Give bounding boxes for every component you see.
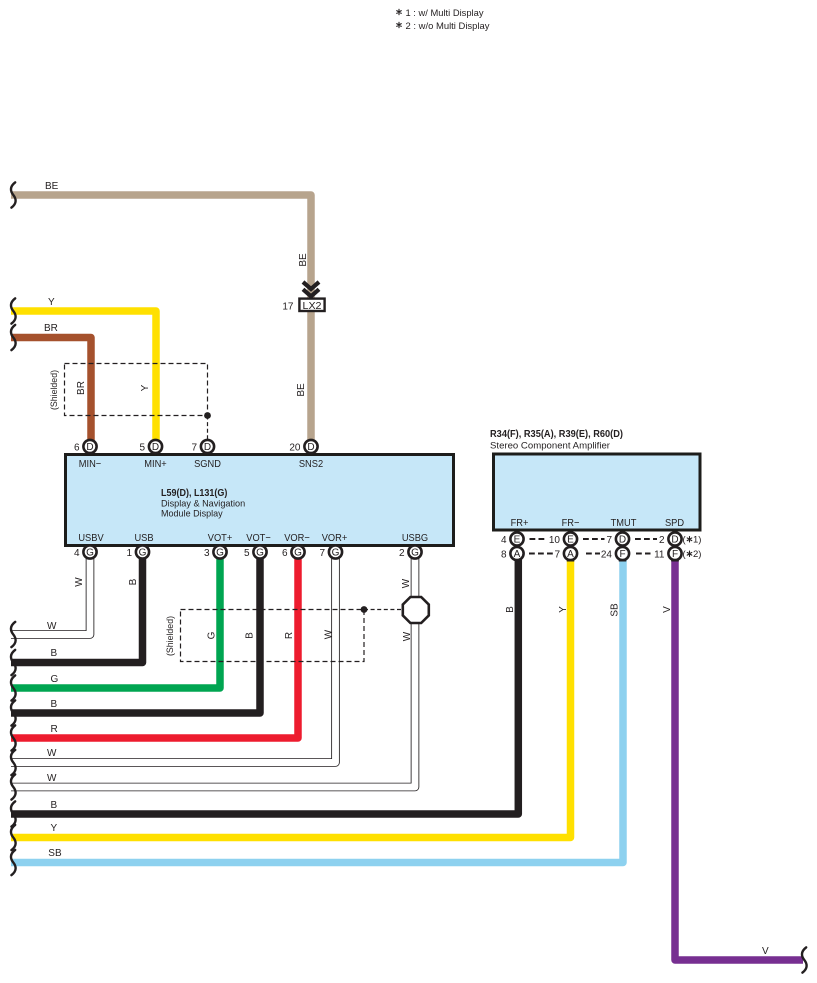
svg-text:R: R: [284, 632, 295, 639]
pin 6 G VOR-: [282, 532, 310, 559]
svg-text:G: G: [294, 548, 302, 559]
shield octagon: [403, 597, 429, 623]
svg-text:11: 11: [654, 550, 665, 561]
svg-text:R34(F), R35(A), R39(E), R60(D): R34(F), R35(A), R39(E), R60(D): [490, 429, 623, 440]
svg-text:2): 2): [693, 549, 701, 560]
junction dot shield lower: [361, 606, 368, 613]
note legend line 2: [397, 22, 402, 27]
svg-text:V: V: [662, 606, 673, 613]
svg-text:D: D: [671, 535, 678, 546]
svg-text:B: B: [128, 578, 139, 585]
svg-text:7: 7: [319, 548, 325, 559]
svg-text:1: 1: [126, 548, 132, 559]
svg-text:BR: BR: [76, 381, 87, 395]
svg-text:D: D: [307, 442, 314, 453]
break BR left: [11, 325, 16, 350]
svg-text:W: W: [401, 578, 412, 588]
svg-text:B: B: [245, 632, 256, 639]
svg-text:7: 7: [191, 443, 197, 454]
svg-text:BE: BE: [298, 253, 309, 267]
svg-text:W: W: [47, 621, 57, 632]
wire Y from amp FR-: [11, 559, 571, 851]
svg-text:10: 10: [549, 535, 561, 546]
connector box LX2: [299, 299, 324, 311]
wire BR (brown) from break to pin 6 MIN-: [11, 338, 91, 442]
pin 5 G VOT-: [244, 532, 271, 559]
svg-text:Y: Y: [51, 823, 58, 834]
pin 7 G VOR+: [319, 532, 347, 559]
amp pin row 1: 4 E -- 10 E --- 7 D --- 2 D (*1): [501, 532, 702, 546]
svg-text:Stereo Component Amplifier: Stereo Component Amplifier: [490, 441, 610, 452]
svg-text:SB: SB: [610, 603, 621, 617]
svg-text:W: W: [402, 631, 413, 641]
wire B from pin 1 USB: [11, 558, 143, 675]
display module box L59/L131: [66, 455, 454, 546]
wire R from pin 6 VOR-: [11, 558, 298, 751]
wire BE (beige) from break to pin 20 SNS2: [11, 195, 311, 441]
pin 20 D SNS2: [289, 440, 323, 470]
svg-text:FR−: FR−: [562, 517, 580, 529]
svg-text:B: B: [51, 699, 58, 710]
note legend line 1: [397, 9, 402, 14]
svg-text:D: D: [619, 535, 626, 546]
svg-text:7: 7: [606, 535, 612, 546]
svg-text:6: 6: [282, 548, 288, 559]
svg-text:F: F: [672, 549, 678, 560]
pin 4 G USBV: [74, 532, 104, 559]
svg-text:(: (: [683, 549, 687, 560]
svg-text:17: 17: [282, 302, 294, 313]
svg-text:2: 2: [659, 535, 665, 546]
wire B from amp FR+: [11, 559, 518, 827]
svg-text:2 : w/o Multi Display: 2 : w/o Multi Display: [406, 21, 490, 32]
svg-text:D: D: [86, 442, 93, 453]
svg-text:D: D: [152, 442, 159, 453]
svg-text:W: W: [74, 577, 85, 587]
svg-text:VOT−: VOT−: [246, 532, 271, 544]
svg-text:L59(D), L131(G): L59(D), L131(G): [161, 488, 227, 499]
amp pin row 2: 8 A --- 7 A -- 24 F -- 11 F (*2): [501, 547, 702, 561]
svg-text:V: V: [762, 946, 769, 957]
break BE left: [11, 182, 16, 207]
svg-text:BR: BR: [44, 323, 58, 334]
svg-text:4: 4: [74, 548, 80, 559]
svg-text:LX2: LX2: [303, 301, 322, 312]
svg-text:G: G: [51, 674, 59, 685]
svg-text:3: 3: [204, 548, 210, 559]
shielded cable box lower: [181, 610, 365, 662]
svg-text:A: A: [514, 549, 521, 560]
wire SB from amp TMUT: [11, 559, 623, 876]
pin 3 G VOT+: [204, 532, 232, 559]
svg-text:7: 7: [554, 550, 560, 561]
svg-text:Y: Y: [558, 606, 569, 613]
svg-text:G: G: [411, 548, 419, 559]
shield drain dashed line to octagon: [364, 609, 403, 611]
wire W from pin 7 VOR+: [11, 558, 336, 775]
amplifier box: [494, 454, 701, 530]
svg-text:1 : w/ Multi Display: 1 : w/ Multi Display: [406, 8, 484, 19]
svg-text:B: B: [51, 648, 58, 659]
pin 6 D MIN-: [74, 440, 101, 470]
wire G from pin 3 VOT+: [11, 558, 220, 701]
svg-text:5: 5: [244, 548, 250, 559]
svg-text:R: R: [51, 724, 58, 735]
svg-text:(Shielded): (Shielded): [49, 370, 59, 410]
svg-text:SPD: SPD: [665, 517, 684, 529]
svg-text:2: 2: [399, 548, 405, 559]
pin 5 D MIN+: [139, 440, 166, 470]
svg-text:VOR+: VOR+: [322, 532, 348, 544]
pin 2 G USBG: [399, 532, 428, 559]
svg-text:6: 6: [74, 443, 80, 454]
svg-text:USBV: USBV: [78, 532, 103, 544]
svg-text:5: 5: [139, 443, 145, 454]
svg-text:TMUT: TMUT: [611, 517, 637, 529]
svg-text:USBG: USBG: [402, 532, 428, 544]
svg-text:F: F: [619, 549, 625, 560]
svg-text:SB: SB: [48, 848, 62, 859]
wire W from pin 4 USBV: [11, 558, 90, 647]
svg-text:BE: BE: [45, 181, 59, 192]
svg-text:BE: BE: [296, 383, 307, 397]
svg-text:MIN+: MIN+: [144, 458, 167, 470]
svg-text:G: G: [332, 548, 340, 559]
svg-text:VOR−: VOR−: [284, 532, 310, 544]
svg-text:VOT+: VOT+: [208, 532, 233, 544]
svg-text:G: G: [216, 548, 224, 559]
svg-text:1): 1): [693, 535, 701, 546]
shielded cable box upper: [65, 364, 208, 416]
wire W from pin 2 USBG: [11, 558, 415, 800]
svg-text:W: W: [47, 773, 57, 784]
svg-text:W: W: [47, 748, 57, 759]
svg-text:A: A: [567, 549, 574, 560]
svg-text:20: 20: [289, 443, 301, 454]
svg-text:B: B: [505, 606, 516, 613]
wire V from amp SPD: [662, 559, 807, 973]
pin 7 D SGND: [191, 440, 221, 470]
wire B from pin 5 VOT-: [11, 558, 260, 726]
svg-text:SGND: SGND: [194, 458, 221, 470]
svg-text:(Shielded): (Shielded): [165, 616, 175, 656]
svg-text:MIN−: MIN−: [79, 458, 102, 470]
svg-text:D: D: [204, 442, 211, 453]
svg-text:Y: Y: [140, 384, 151, 391]
junction dot shield upper: [204, 412, 211, 419]
svg-text:W: W: [324, 629, 335, 639]
svg-text:G: G: [86, 548, 94, 559]
connector chevrons into 17 LX2: [303, 282, 319, 296]
svg-text:B: B: [51, 800, 58, 811]
break Y left: [11, 298, 16, 323]
svg-text:SNS2: SNS2: [299, 458, 323, 470]
svg-text:E: E: [514, 535, 521, 546]
svg-text:8: 8: [501, 550, 507, 561]
svg-text:USB: USB: [134, 532, 153, 544]
svg-text:FR+: FR+: [511, 517, 529, 529]
shield drain dashed line to SGND: [207, 416, 209, 441]
svg-text:E: E: [567, 535, 574, 546]
svg-text:(: (: [683, 535, 687, 546]
svg-text:Module Display: Module Display: [161, 509, 223, 520]
svg-text:Y: Y: [48, 297, 55, 308]
pin 1 G USB: [126, 532, 153, 559]
svg-text:4: 4: [501, 535, 507, 546]
wire Y (yellow) from break to pin 5 MIN+: [11, 311, 156, 441]
svg-text:G: G: [139, 548, 147, 559]
svg-text:G: G: [256, 548, 264, 559]
svg-text:G: G: [207, 631, 218, 639]
svg-text:24: 24: [601, 550, 613, 561]
